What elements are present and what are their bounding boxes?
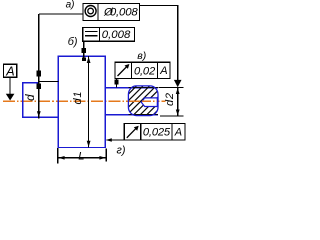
svg-text:г): г) — [117, 144, 126, 156]
svg-text:Ø0,008: Ø0,008 — [103, 7, 138, 19]
svg-text:в): в) — [137, 50, 146, 62]
svg-text:d: d — [25, 94, 37, 101]
svg-text:A: A — [5, 65, 14, 79]
svg-text:A: A — [159, 65, 167, 77]
svg-text:L: L — [78, 150, 84, 162]
svg-text:d1: d1 — [72, 91, 84, 105]
svg-text:d2: d2 — [164, 92, 176, 106]
svg-text:0,008: 0,008 — [102, 29, 131, 41]
svg-text:0,02: 0,02 — [134, 66, 156, 78]
svg-text:0,025: 0,025 — [143, 127, 171, 139]
svg-text:а): а) — [66, 0, 75, 10]
svg-text:б): б) — [68, 36, 78, 48]
svg-text:A: A — [174, 127, 182, 139]
